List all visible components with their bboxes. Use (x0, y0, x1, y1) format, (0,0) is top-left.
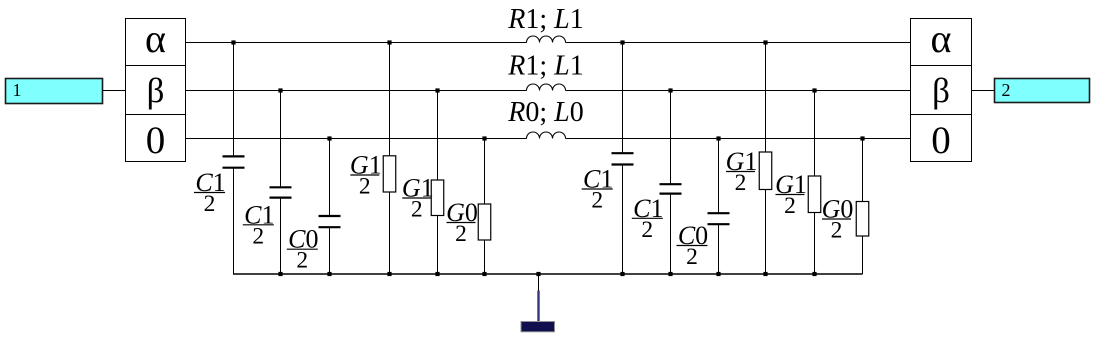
wire G1a_R upper (765, 43, 767, 153)
label beta right (932, 71, 950, 110)
resistor G1/2 left beta (431, 180, 444, 216)
label zero left (146, 119, 166, 162)
wire beta left segment (186, 90, 527, 92)
label beta left (147, 71, 165, 110)
svg-text:2: 2 (735, 170, 747, 196)
wire C1a_R upper (622, 43, 624, 154)
label G1/2 right alpha (726, 147, 758, 196)
junction dot wire 11 (716, 136, 720, 140)
port terminal 2 (995, 79, 1090, 103)
wire C1b_R lower (670, 194, 672, 274)
wire C1a_R lower (622, 165, 624, 275)
svg-text:α: α (145, 16, 166, 61)
svg-text:2: 2 (411, 197, 423, 223)
label C0/2 right zero (677, 221, 709, 270)
svg-text:2: 2 (204, 191, 216, 217)
wire G1b_L upper (437, 91, 439, 181)
wire G1b_R upper (814, 91, 816, 177)
wire G0_R upper (862, 139, 864, 202)
wire C0_L lower (329, 227, 331, 274)
junction dot rail 6 (536, 272, 540, 276)
label alpha right (931, 16, 952, 61)
junction dot wire 9 (327, 136, 331, 140)
svg-text:2: 2 (641, 217, 653, 243)
svg-text:2: 2 (591, 188, 603, 214)
resistor G0/2 right zero (856, 202, 869, 237)
wire C1b_L upper (280, 91, 282, 188)
svg-text:1: 1 (13, 80, 22, 100)
capacitor C1/2 right beta (660, 184, 682, 193)
junction dot wire 2 (387, 40, 391, 44)
junction dot wire 5 (278, 88, 282, 92)
junction dot rail 3 (387, 272, 391, 276)
label zero right (931, 119, 951, 162)
svg-text:2: 2 (831, 218, 843, 244)
junction dot wire 1 (231, 40, 235, 44)
svg-text:2: 2 (252, 223, 264, 249)
label G0/2 right zero (822, 195, 854, 244)
transformation block right (alpha-beta-0) (911, 19, 972, 162)
label C1/2 left beta (243, 200, 275, 249)
junction dot rail 7 (620, 272, 624, 276)
svg-text:2: 2 (784, 193, 796, 219)
wire C0_R upper (718, 139, 720, 214)
junction dot wire 10 (482, 136, 486, 140)
junction dot rail 2 (327, 272, 331, 276)
inductor R0;L0 zero (527, 132, 566, 139)
capacitor C1/2 left alpha (223, 156, 245, 167)
inductor R1;L1 alpha (527, 36, 566, 43)
label G1/2 left beta (402, 174, 434, 223)
wire C0_L upper (329, 139, 331, 217)
junction dot wire 6 (435, 88, 439, 92)
wire G1b_L lower (437, 216, 439, 275)
ground stub wire (538, 274, 540, 291)
svg-text:0: 0 (931, 119, 951, 162)
wire zero right segment (566, 138, 911, 140)
wire C0_R lower (718, 224, 720, 274)
ground (521, 291, 555, 332)
junction dot rail 8 (668, 272, 672, 276)
wire G0_R lower (862, 236, 864, 274)
svg-text:β: β (147, 71, 165, 110)
capacitor C0/2 left zero (319, 216, 341, 227)
port terminal 1 (6, 79, 103, 104)
resistor G1/2 right alpha (759, 152, 772, 190)
capacitor C1/2 left beta (270, 187, 292, 197)
resistor G0/2 left zero (478, 204, 491, 240)
wire beta right segment (566, 90, 911, 92)
junction dot rail 10 (763, 272, 767, 276)
svg-text:R1; L1: R1; L1 (507, 51, 583, 82)
wire G1a_L lower (389, 192, 391, 274)
label G1/2 right beta (775, 170, 807, 219)
resistor G1/2 right beta (808, 176, 821, 213)
svg-text:β: β (932, 71, 950, 110)
wire G1b_R lower (814, 213, 816, 275)
wire alpha left segment (186, 42, 527, 44)
resistor G1/2 left alpha (383, 156, 396, 192)
wire G0_L upper (484, 139, 486, 205)
junction dot rail 1 (278, 272, 282, 276)
junction dot wire 7 (668, 88, 672, 92)
svg-text:2: 2 (296, 248, 308, 274)
wire C1b_L lower (280, 198, 282, 274)
label G1/2 left alpha (350, 151, 382, 200)
svg-text:2: 2 (686, 244, 698, 270)
svg-text:0: 0 (146, 119, 166, 162)
label C1/2 right beta (632, 194, 664, 243)
label R0; L0 (zero) (507, 97, 583, 128)
wire G1a_L upper (389, 43, 391, 156)
label alpha left (145, 16, 166, 61)
junction dot rail 4 (435, 272, 439, 276)
svg-text:2: 2 (455, 221, 467, 247)
svg-text:2: 2 (1002, 80, 1011, 100)
wire C1a_L upper (233, 43, 235, 157)
junction dot rail 5 (482, 272, 486, 276)
wire port1 to left block (103, 90, 126, 92)
junction dot wire 3 (620, 40, 624, 44)
inductor R1;L1 beta (527, 84, 566, 90)
junction dot wire 4 (763, 40, 767, 44)
label C0/2 left zero (287, 225, 319, 274)
wire bottom rail (ground bus) (233, 273, 863, 275)
svg-text:2: 2 (359, 174, 371, 200)
wire C1a_L lower (233, 168, 235, 274)
junction dot wire 12 (860, 136, 864, 140)
wire right block to port2 (972, 90, 995, 92)
label R1; L1 (alpha) (507, 4, 583, 35)
wire G1a_R lower (765, 190, 767, 275)
label R1; L1 (beta) (507, 51, 583, 82)
svg-text:α: α (931, 16, 952, 61)
svg-text:R1; L1: R1; L1 (507, 4, 583, 35)
wire G0_L lower (484, 240, 486, 274)
svg-text:R0; L0: R0; L0 (507, 97, 583, 128)
label C1/2 right alpha (582, 165, 614, 214)
wire zero left segment (186, 138, 527, 140)
junction dot rail 11 (812, 272, 816, 276)
junction dot rail 9 (716, 272, 720, 276)
label C1/2 left alpha (194, 168, 226, 217)
wire C1b_R upper (670, 91, 672, 185)
wire alpha right segment (566, 42, 911, 44)
junction dot wire 8 (812, 88, 816, 92)
capacitor C0/2 right zero (708, 213, 730, 224)
transformation block left (alpha-beta-0) (126, 19, 186, 162)
label G0/2 left zero (446, 198, 478, 247)
capacitor C1/2 right alpha (612, 153, 634, 164)
